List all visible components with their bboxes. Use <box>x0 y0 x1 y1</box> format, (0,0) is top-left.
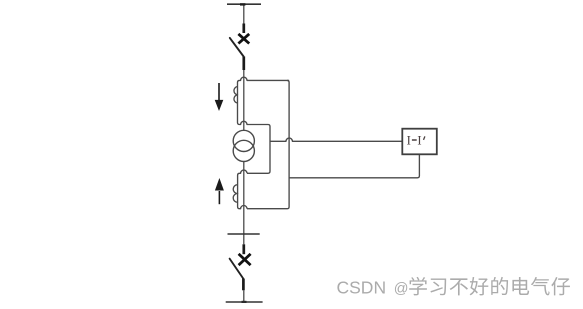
svg-text:I: I <box>417 134 421 148</box>
svg-text:CSDN: CSDN <box>337 278 387 298</box>
svg-text:@: @ <box>394 281 409 297</box>
svg-text:I: I <box>407 134 411 148</box>
